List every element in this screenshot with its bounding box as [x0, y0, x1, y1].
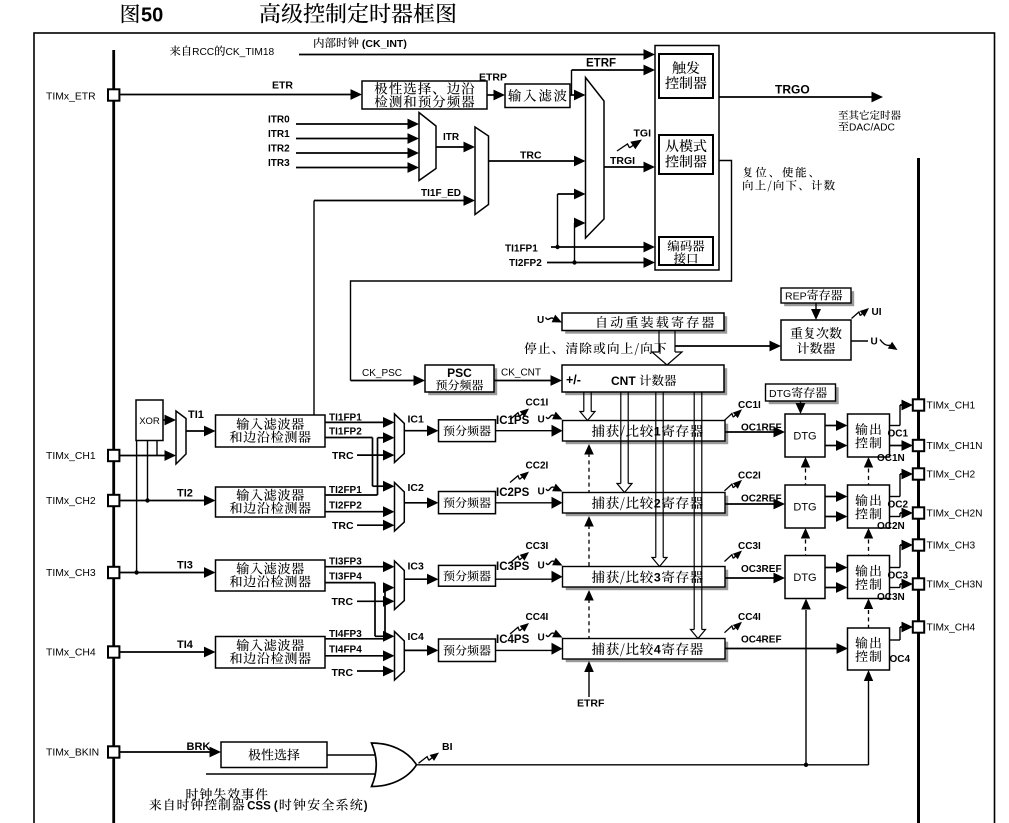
svg-text:IC2: IC2	[408, 482, 425, 494]
svg-text:BI: BI	[442, 741, 453, 753]
svg-text:TIMx_CH4: TIMx_CH4	[927, 623, 976, 634]
svg-text:TIMx_CH3: TIMx_CH3	[46, 568, 96, 579]
svg-text:OC1N: OC1N	[877, 453, 905, 464]
svg-text:IC1: IC1	[408, 413, 425, 425]
svg-text:U: U	[537, 315, 544, 326]
svg-text:1: 1	[654, 425, 661, 439]
svg-text:OC2N: OC2N	[877, 521, 905, 532]
svg-text:ETRF: ETRF	[586, 58, 616, 70]
svg-text:CC1I: CC1I	[526, 398, 549, 409]
svg-text:TI2FP2: TI2FP2	[509, 258, 542, 269]
svg-text:ITR1: ITR1	[268, 129, 290, 140]
svg-text:TIMx_CH1: TIMx_CH1	[927, 401, 976, 412]
svg-text:TRC: TRC	[332, 667, 354, 679]
svg-text:TIMx_CH3N: TIMx_CH3N	[927, 580, 983, 591]
svg-text:RCC: RCC	[192, 47, 214, 58]
svg-text:U: U	[538, 633, 545, 644]
svg-text:CC2I: CC2I	[526, 461, 549, 472]
svg-text:CSS (: CSS (	[247, 801, 278, 813]
svg-text:TI2FP2: TI2FP2	[329, 501, 362, 512]
svg-text:TRC: TRC	[520, 150, 542, 162]
svg-text:OC3REF: OC3REF	[741, 564, 782, 575]
svg-text:CK_TIM18: CK_TIM18	[226, 47, 275, 58]
svg-text:CC2I: CC2I	[738, 470, 761, 481]
svg-text:PSC: PSC	[447, 366, 472, 380]
svg-text:CC4I: CC4I	[738, 612, 761, 623]
svg-text:U: U	[538, 415, 545, 426]
svg-text:DTG: DTG	[793, 502, 816, 514]
svg-text:TIMx_CH2: TIMx_CH2	[46, 496, 96, 507]
svg-text:(CK_INT): (CK_INT)	[359, 38, 407, 50]
svg-text:50: 50	[141, 5, 163, 27]
svg-text:U: U	[538, 487, 545, 498]
svg-text:DTG: DTG	[793, 572, 816, 584]
svg-text:TI3: TI3	[177, 560, 193, 572]
svg-text:TI1F_ED: TI1F_ED	[421, 188, 461, 199]
svg-text:XOR: XOR	[139, 416, 160, 427]
svg-text:ITR: ITR	[443, 132, 460, 143]
svg-text:TI4FP4: TI4FP4	[329, 645, 362, 656]
svg-text:TI1FP1: TI1FP1	[505, 244, 538, 255]
svg-text:CNT: CNT	[611, 374, 639, 388]
svg-text:OC3: OC3	[888, 571, 909, 582]
svg-text:TIMx_ETR: TIMx_ETR	[46, 92, 96, 103]
svg-text:TI1: TI1	[188, 409, 204, 421]
svg-text:OC1: OC1	[888, 429, 909, 440]
svg-text:3: 3	[654, 571, 661, 585]
svg-text:DAC/ADC: DAC/ADC	[849, 123, 895, 134]
svg-text:TI4: TI4	[177, 639, 194, 651]
svg-text:CC1I: CC1I	[738, 400, 761, 411]
svg-text:OC4: OC4	[890, 654, 911, 665]
svg-text:ETRP: ETRP	[479, 72, 507, 84]
svg-text:ITR3: ITR3	[268, 158, 290, 169]
svg-text:CC3I: CC3I	[526, 541, 549, 552]
svg-text:): )	[364, 801, 368, 813]
svg-text:TRC: TRC	[332, 450, 354, 462]
svg-text:TRC: TRC	[332, 520, 354, 532]
svg-text:CC3I: CC3I	[738, 541, 761, 552]
svg-text:TRC: TRC	[332, 596, 354, 608]
svg-text:TIMx_CH2: TIMx_CH2	[927, 470, 976, 481]
svg-text:TRGI: TRGI	[610, 155, 635, 167]
svg-text:TIMx_CH1: TIMx_CH1	[46, 451, 96, 462]
svg-text:2: 2	[654, 497, 661, 511]
svg-text:ETR: ETR	[272, 80, 293, 92]
svg-text:TI3FP4: TI3FP4	[329, 571, 362, 582]
svg-text:TI1FP2: TI1FP2	[329, 426, 362, 437]
svg-text:IC4: IC4	[408, 631, 425, 643]
svg-text:IC3: IC3	[408, 561, 425, 573]
svg-text:TIMx_CH2N: TIMx_CH2N	[927, 509, 983, 520]
svg-text:CK_PSC: CK_PSC	[362, 368, 402, 379]
svg-text:4: 4	[654, 643, 661, 657]
svg-text:OC2: OC2	[888, 500, 909, 511]
svg-text:OC3N: OC3N	[877, 592, 905, 603]
svg-text:REP: REP	[785, 291, 807, 303]
svg-text:UI: UI	[872, 307, 882, 318]
svg-text:ETRF: ETRF	[577, 698, 605, 710]
svg-text:TIMx_BKIN: TIMx_BKIN	[46, 748, 99, 759]
svg-text:DTG: DTG	[793, 431, 816, 443]
svg-text:OC4REF: OC4REF	[741, 634, 782, 645]
svg-text:ITR2: ITR2	[268, 144, 290, 155]
svg-text:CK_CNT: CK_CNT	[501, 368, 541, 379]
svg-text:ITR0: ITR0	[268, 115, 290, 126]
svg-text:TI2: TI2	[177, 488, 193, 500]
svg-text:DTG: DTG	[769, 388, 791, 400]
svg-text:TRGO: TRGO	[775, 83, 810, 97]
svg-text:IC2PS: IC2PS	[496, 487, 530, 499]
svg-text:U: U	[871, 337, 878, 348]
svg-text:TIMx_CH3: TIMx_CH3	[927, 541, 976, 552]
svg-text:IC4PS: IC4PS	[496, 634, 530, 646]
svg-text:+/-: +/-	[566, 373, 581, 387]
svg-text:TIMx_CH4: TIMx_CH4	[46, 648, 96, 659]
svg-text:IC3PS: IC3PS	[496, 561, 530, 573]
svg-text:CC4I: CC4I	[526, 612, 549, 623]
svg-text:TIMx_CH1N: TIMx_CH1N	[927, 441, 983, 452]
svg-text:TGI: TGI	[634, 128, 652, 140]
svg-text:U: U	[538, 561, 545, 572]
